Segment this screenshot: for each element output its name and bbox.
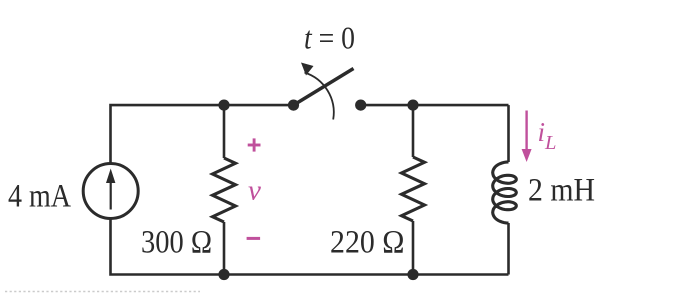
svg-text:300 Ω: 300 Ω [141, 225, 212, 261]
svg-text:2 mH: 2 mH [528, 173, 595, 209]
svg-text:iL: iL [538, 117, 557, 154]
svg-text:t = 0: t = 0 [304, 20, 355, 56]
svg-text:220 Ω: 220 Ω [330, 225, 405, 261]
svg-text:4 mA: 4 mA [8, 179, 71, 215]
svg-text:v: v [248, 175, 261, 207]
